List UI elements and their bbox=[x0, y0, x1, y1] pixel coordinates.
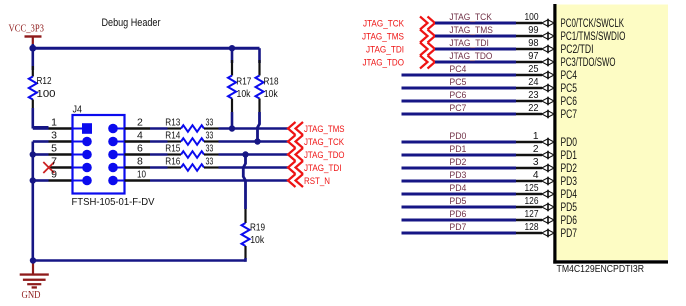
svg-text:JTAG_TMS: JTAG_TMS bbox=[304, 124, 345, 135]
svg-text:PD2: PD2 bbox=[449, 157, 466, 168]
svg-text:4: 4 bbox=[137, 129, 143, 141]
svg-text:24: 24 bbox=[528, 77, 539, 88]
svg-text:PD2: PD2 bbox=[561, 163, 578, 175]
svg-text:R18: R18 bbox=[264, 75, 279, 87]
svg-text:PD7: PD7 bbox=[449, 222, 466, 233]
svg-text:100: 100 bbox=[525, 12, 539, 23]
svg-text:JTAG_TDO: JTAG_TDO bbox=[363, 57, 405, 68]
svg-text:J4: J4 bbox=[73, 104, 83, 116]
svg-text:JTAG_TDO: JTAG_TDO bbox=[304, 150, 345, 161]
svg-text:98: 98 bbox=[528, 38, 539, 49]
svg-text:100: 100 bbox=[37, 88, 56, 100]
svg-text:23: 23 bbox=[528, 90, 539, 101]
svg-text:PC1/TMS/SWDIO: PC1/TMS/SWDIO bbox=[561, 31, 626, 43]
svg-text:PD0: PD0 bbox=[561, 137, 578, 149]
svg-text:33: 33 bbox=[206, 143, 214, 155]
svg-text:PC5: PC5 bbox=[561, 83, 578, 95]
svg-text:R13: R13 bbox=[165, 117, 180, 129]
svg-text:R14: R14 bbox=[165, 130, 180, 142]
svg-text:JTAG_TDI: JTAG_TDI bbox=[366, 44, 404, 55]
svg-text:PD5: PD5 bbox=[449, 196, 466, 207]
svg-text:5: 5 bbox=[51, 142, 57, 154]
svg-text:2: 2 bbox=[137, 116, 143, 128]
svg-text:R15: R15 bbox=[165, 143, 180, 155]
svg-text:PC6: PC6 bbox=[449, 90, 466, 101]
svg-text:JTAG_TCK: JTAG_TCK bbox=[449, 12, 492, 23]
svg-text:1: 1 bbox=[51, 116, 57, 128]
svg-text:33: 33 bbox=[206, 117, 214, 129]
svg-text:GND: GND bbox=[22, 289, 41, 301]
svg-text:R16: R16 bbox=[165, 156, 180, 168]
svg-text:25: 25 bbox=[528, 64, 539, 75]
svg-text:PC6: PC6 bbox=[561, 96, 578, 108]
svg-text:PC2/TDI: PC2/TDI bbox=[561, 44, 594, 56]
svg-text:PD1: PD1 bbox=[449, 144, 466, 155]
svg-text:PD6: PD6 bbox=[449, 209, 466, 220]
svg-text:PC0/TCK/SWCLK: PC0/TCK/SWCLK bbox=[561, 18, 625, 30]
svg-text:4: 4 bbox=[533, 170, 539, 181]
svg-text:PD3: PD3 bbox=[561, 176, 578, 188]
svg-text:7: 7 bbox=[51, 155, 57, 167]
svg-text:TM4C129ENCPDTI3R: TM4C129ENCPDTI3R bbox=[557, 263, 645, 275]
svg-text:PD7: PD7 bbox=[561, 228, 578, 240]
svg-text:125: 125 bbox=[525, 183, 539, 194]
svg-text:3: 3 bbox=[51, 129, 57, 141]
svg-text:10k: 10k bbox=[264, 88, 279, 100]
svg-text:PC5: PC5 bbox=[449, 77, 466, 88]
svg-text:10k: 10k bbox=[237, 88, 252, 100]
svg-text:2: 2 bbox=[533, 144, 539, 155]
svg-text:Debug Header: Debug Header bbox=[102, 17, 161, 29]
svg-text:JTAG_TCK: JTAG_TCK bbox=[363, 18, 405, 29]
svg-text:10: 10 bbox=[137, 168, 146, 180]
svg-text:PD5: PD5 bbox=[561, 202, 578, 214]
svg-text:R17: R17 bbox=[236, 75, 251, 87]
svg-text:FTSH-105-01-F-DV: FTSH-105-01-F-DV bbox=[72, 196, 155, 208]
svg-text:1: 1 bbox=[533, 131, 539, 142]
svg-text:JTAG_TDI: JTAG_TDI bbox=[449, 38, 489, 49]
svg-text:33: 33 bbox=[206, 156, 214, 168]
svg-text:128: 128 bbox=[525, 222, 539, 233]
svg-text:JTAG_TCK: JTAG_TCK bbox=[304, 137, 345, 148]
svg-text:PC7: PC7 bbox=[449, 103, 466, 114]
svg-text:9: 9 bbox=[51, 168, 57, 180]
svg-text:JTAG_TMS: JTAG_TMS bbox=[362, 31, 404, 42]
svg-text:VCC_3P3: VCC_3P3 bbox=[9, 23, 45, 35]
svg-text:R12: R12 bbox=[37, 75, 52, 87]
svg-text:PD3: PD3 bbox=[449, 170, 466, 181]
svg-text:JTAG_TDI: JTAG_TDI bbox=[304, 163, 342, 174]
svg-text:10k: 10k bbox=[250, 234, 265, 246]
svg-text:PD4: PD4 bbox=[561, 189, 578, 201]
svg-text:PD4: PD4 bbox=[449, 183, 466, 194]
svg-text:PD6: PD6 bbox=[561, 215, 578, 227]
svg-text:PD1: PD1 bbox=[561, 150, 578, 162]
svg-text:8: 8 bbox=[137, 155, 143, 167]
svg-text:127: 127 bbox=[525, 209, 539, 220]
svg-text:3: 3 bbox=[533, 157, 539, 168]
svg-text:PC3/TDO/SWO: PC3/TDO/SWO bbox=[561, 57, 616, 69]
svg-text:RST_N: RST_N bbox=[304, 176, 330, 187]
svg-text:JTAG_TMS: JTAG_TMS bbox=[449, 25, 493, 36]
svg-text:R19: R19 bbox=[250, 222, 265, 234]
svg-text:33: 33 bbox=[206, 130, 214, 142]
svg-text:126: 126 bbox=[525, 196, 539, 207]
svg-text:PC4: PC4 bbox=[561, 70, 578, 82]
svg-text:PC7: PC7 bbox=[561, 109, 578, 121]
svg-text:97: 97 bbox=[528, 51, 539, 62]
svg-text:JTAG_TDO: JTAG_TDO bbox=[449, 51, 492, 62]
svg-text:6: 6 bbox=[137, 142, 143, 154]
svg-text:PC4: PC4 bbox=[449, 64, 466, 75]
svg-text:PD0: PD0 bbox=[449, 131, 466, 142]
svg-text:22: 22 bbox=[528, 103, 539, 114]
svg-text:99: 99 bbox=[528, 25, 539, 36]
